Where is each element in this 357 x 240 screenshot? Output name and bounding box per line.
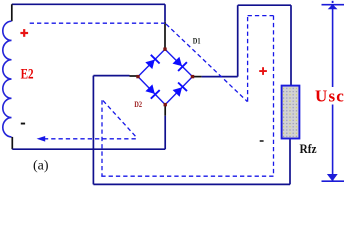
wire bottom horizontal coil to bridge bottom	[12, 148, 165, 150]
dashed return horizontal with arrow	[45, 138, 136, 140]
dashed horizontal inner bottom	[101, 175, 273, 177]
node top	[163, 48, 166, 51]
svg-text:D2: D2	[134, 99, 142, 109]
wire vertical from top wire down toward top node	[164, 4, 166, 22]
dashed hypotenuse through D2	[103, 101, 137, 138]
wire black stub above top node	[164, 22, 166, 48]
inductor E2 coil	[3, 21, 12, 137]
diode bottom-right (conducts bottom to right)	[173, 87, 183, 97]
dashed vertical inner right	[273, 16, 275, 177]
svg-text:Usc: Usc	[315, 86, 345, 105]
svg-text:(a): (a)	[33, 159, 49, 174]
dimension cap bottom	[322, 180, 345, 182]
wire top horizontal from coil to bridge	[12, 3, 165, 5]
svg-text:Rfz: Rfz	[300, 142, 318, 157]
label - (source polarity)	[21, 123, 25, 125]
node right	[191, 75, 194, 78]
wire left output vertical down	[92, 76, 94, 185]
dashed current path top horizontal	[30, 22, 165, 24]
wire right output horizontal	[202, 76, 238, 78]
dashed horizontal inner top	[248, 15, 274, 17]
wire right output: black stub right of right node	[194, 76, 202, 78]
diode D2 bottom-left (conducts left to bottom)	[145, 84, 154, 94]
diode top-left (conducts left to top)	[145, 60, 154, 70]
dimension tick above top cap	[332, 1, 334, 3]
resistor Rfz body	[282, 86, 300, 139]
dimension line upper	[332, 6, 334, 88]
dimension arrowhead bottom	[327, 174, 338, 181]
node left	[136, 75, 139, 78]
dimension line lower	[332, 105, 334, 181]
wire black stub below bottom node	[164, 106, 166, 116]
diode D1 top-right (conducts top to right)	[173, 57, 183, 66]
arrowhead of dashed return	[37, 136, 46, 142]
dashed vertical at left of triangle	[101, 100, 103, 176]
wire coil top lead (black)	[11, 4, 13, 21]
bridge edge right-bottom	[165, 77, 192, 105]
wire bottom long horizontal to resistor	[93, 183, 290, 185]
dimension arrowhead top	[328, 4, 338, 9]
wire vertical up to resistor bottom	[289, 139, 291, 185]
dashed vertical inner left	[247, 16, 249, 102]
wire left output: black stub left of left node	[130, 75, 138, 77]
dimension cap top	[322, 4, 345, 6]
wire coil bottom lead (black)	[11, 137, 13, 149]
svg-text:D1: D1	[193, 35, 201, 45]
wire left output horizontal	[93, 75, 129, 77]
label + (load polarity)	[259, 70, 267, 72]
dashed diagonal through D1	[166, 24, 247, 102]
label + (source polarity)	[20, 32, 28, 34]
label - (load polarity)	[260, 140, 264, 142]
bridge edge bottom-left	[138, 77, 165, 105]
wire vertical down to resistor top	[290, 5, 292, 85]
node bottom	[164, 103, 167, 106]
bridge edge top-right	[165, 49, 193, 76]
svg-text:E2: E2	[21, 65, 34, 82]
bridge edge left-top	[138, 49, 165, 76]
wire vertical up to bridge bottom node	[164, 116, 166, 150]
wire right output vertical up	[237, 5, 239, 76]
wire top right horizontal	[238, 4, 291, 6]
